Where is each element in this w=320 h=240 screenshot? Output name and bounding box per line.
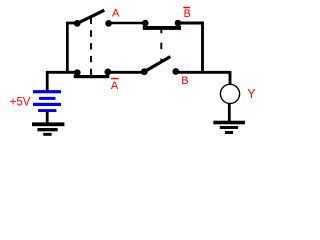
svg-text:A: A (112, 8, 120, 20)
wire: battery negative lead to ground (46, 112, 49, 124)
wire: left rail from bottom wire up to top switch row (67, 23, 78, 74)
gang link dashed line A to A-bar (90, 18, 92, 76)
wire: top right segment and right rail down to bottom wire (177, 23, 203, 72)
svg-text:B: B (181, 75, 188, 87)
battery B1 +5V plates (33, 90, 61, 112)
wire: bottom row between switch A-bar and switch B (107, 71, 145, 74)
wire: top row between switch A and switch B-bar (108, 22, 148, 25)
wire: bottom right segment from switch B to lamp (175, 72, 230, 85)
wire: battery positive lead and bottom wire to switch A-bar (47, 72, 78, 90)
ground (lamp) (213, 121, 245, 134)
switch A (open) contacts (74, 20, 112, 27)
switch B-bar (closed) contacts (142, 20, 181, 27)
label A-bar (111, 78, 119, 92)
switch A blade (open) (77, 10, 104, 23)
switch B-bar blade (closed) (143, 26, 181, 30)
switch B (open) contacts (141, 68, 179, 75)
svg-text:A: A (111, 80, 119, 92)
gang link dashed line B-bar to B (160, 27, 162, 61)
svg-text:B: B (184, 8, 191, 20)
wire: lamp bottom lead to ground (228, 104, 231, 124)
switch B blade (open) (144, 57, 171, 72)
label B-bar (183, 7, 190, 20)
switch A-bar blade (closed) (74, 75, 110, 78)
lamp Y (220, 84, 239, 103)
svg-text:Y: Y (247, 87, 256, 101)
ground (battery) (32, 122, 64, 135)
switch A-bar (closed) contacts (74, 69, 111, 77)
svg-text:+5V: +5V (10, 95, 31, 109)
